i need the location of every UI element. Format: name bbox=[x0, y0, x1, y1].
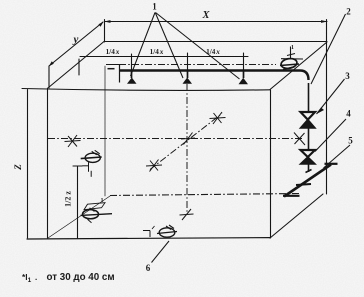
svg-text:1: 1 bbox=[152, 2, 157, 12]
svg-text:6: 6 bbox=[146, 263, 151, 273]
svg-text:y: y bbox=[72, 34, 79, 46]
svg-text:X: X bbox=[201, 10, 210, 21]
svg-text:3: 3 bbox=[345, 71, 350, 81]
svg-text:1: 1 bbox=[101, 198, 104, 204]
svg-text:1/2 z: 1/2 z bbox=[64, 191, 73, 207]
svg-text:Z: Z bbox=[13, 164, 23, 171]
svg-text:4: 4 bbox=[346, 109, 351, 119]
svg-text:5: 5 bbox=[348, 136, 353, 146]
svg-text:1: 1 bbox=[291, 45, 294, 51]
svg-text:2: 2 bbox=[346, 7, 351, 17]
svg-text:1/4x: 1/4x bbox=[150, 48, 164, 56]
svg-text:1/4x: 1/4x bbox=[206, 48, 220, 56]
svg-text:1/4x: 1/4x bbox=[106, 48, 120, 56]
